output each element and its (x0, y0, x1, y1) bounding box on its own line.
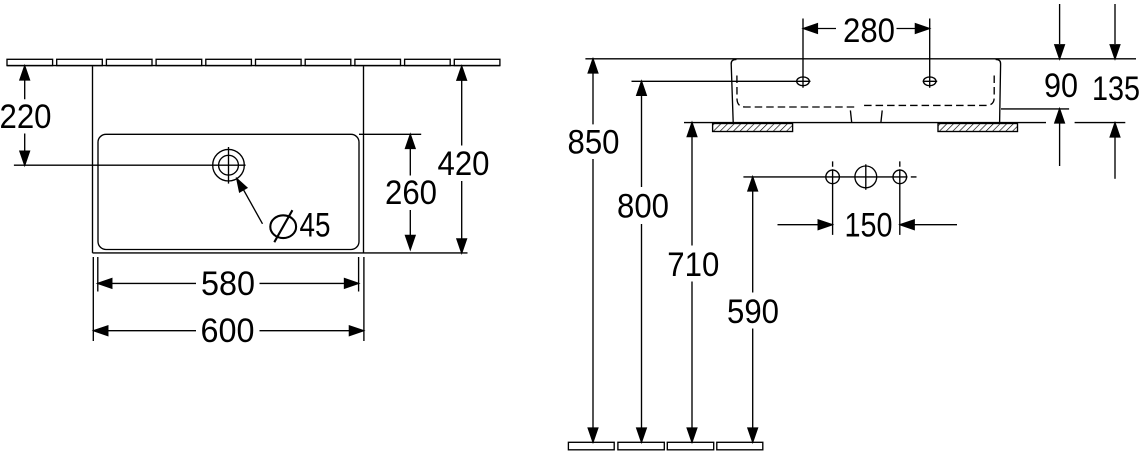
dimension 590 line (752, 178, 754, 442)
dimension 280 left arrow (803, 24, 817, 34)
dimension 800 top arrow (637, 81, 647, 95)
dimension 800 bottom arrow (637, 428, 647, 442)
right mounting bracket (hatched) (938, 124, 1018, 132)
front view: wall/rim top reference line (585, 58, 1136, 60)
tap hole inner circle (219, 155, 239, 175)
dimension 590 bottom arrow (748, 428, 758, 442)
basin outer rectangle (plan view) (93, 66, 364, 253)
dimension 90 lower reference line (1001, 108, 1069, 110)
dimension 90 upper line (1059, 4, 1061, 44)
dimension 135 lower tail (1114, 137, 1116, 179)
dimension 150 left line (778, 224, 820, 226)
basin inner rounded rectangle (plan view) (98, 134, 359, 249)
dimension 135 lower arrow (1110, 123, 1120, 137)
dimension 90 lower arrow (1055, 109, 1065, 123)
dimension 260 line (409, 136, 411, 249)
dimension 580 line (98, 282, 359, 284)
svg-text:800: 800 (617, 188, 669, 226)
front view: basin right edge (996, 59, 1001, 122)
600 extension lines (93, 257, 364, 341)
dimension 850 bottom arrow (588, 428, 598, 442)
svg-text:850: 850 (568, 123, 620, 161)
svg-text:45: 45 (300, 207, 331, 245)
left mounting bracket (hatched) (713, 124, 793, 132)
faucet hole center circle (855, 166, 877, 188)
svg-text:710: 710 (667, 246, 719, 284)
dimension 150 right line (914, 224, 958, 226)
dimension 150 right arrow (900, 220, 914, 230)
leader line for diameter 45 (242, 186, 263, 224)
dimension 260 top arrow (406, 135, 416, 149)
dimension 220 line (24, 67, 26, 165)
dimension 850 line (592, 60, 594, 442)
dimension 135 upper line (1114, 4, 1116, 44)
faucet hole small right circle (893, 170, 907, 184)
580 extension lines (98, 257, 359, 292)
tap hole outer circle (213, 149, 245, 181)
wall line (plan view) (7, 65, 500, 67)
basin bottom edge + extension line (93, 252, 468, 254)
800 reference line (632, 80, 797, 82)
front view: basin bottom line + 710 reference + right extension (684, 122, 1125, 124)
dimension 710 top arrow (687, 123, 697, 137)
dimension 260 bottom arrow (406, 235, 416, 249)
dimension 135 upper arrow (1110, 45, 1120, 59)
dimension 600 left arrow (94, 326, 108, 336)
dimension 580 right arrow (345, 279, 359, 289)
dimension 220 bottom arrow (20, 151, 30, 165)
drain boss left line (850, 110, 851, 122)
dashed bowl contour left (737, 76, 856, 108)
svg-text:590: 590 (727, 293, 779, 331)
dimension 420 line (461, 67, 463, 251)
dimension 600 right arrow (349, 326, 363, 336)
diameter symbol slash (274, 210, 292, 242)
dimension 710 bottom arrow (687, 428, 697, 442)
fixing hole left centerlines + 280 extension (796, 19, 811, 88)
dimension 420 top arrow (457, 66, 467, 80)
dimension 280 right arrow (915, 24, 929, 34)
dimension 420 bottom arrow (457, 239, 467, 253)
svg-text:600: 600 (201, 312, 255, 350)
inner rect top extension line (260 dim) (359, 133, 421, 135)
svg-text:220: 220 (0, 98, 52, 136)
dimension 850 top arrow (588, 59, 598, 73)
svg-text:580: 580 (201, 265, 255, 303)
drain boss right line (881, 110, 882, 122)
svg-text:90: 90 (1044, 67, 1078, 105)
floor tiles (568, 442, 762, 450)
dimension 90 upper arrow (1055, 45, 1065, 59)
fixing hole right (923, 77, 936, 86)
dimension 710 line (691, 123, 693, 441)
diameter symbol circle (270, 215, 296, 238)
svg-text:150: 150 (845, 207, 893, 245)
left circle vertical centerline + 150 extension (832, 161, 834, 235)
svg-text:280: 280 (843, 12, 895, 50)
right circle vertical centerline + 150 extension (899, 161, 901, 235)
dimension 150 left arrow (818, 220, 832, 230)
dimension 600 line (94, 330, 364, 332)
dashed bowl contour right (864, 76, 994, 106)
dimension 800 line (641, 82, 643, 441)
fixing hole left (797, 77, 810, 86)
dimension 580 left arrow (98, 279, 112, 289)
svg-text:420: 420 (438, 145, 490, 183)
tap hole vertical centerline (228, 147, 230, 184)
dimension 280 line (817, 28, 916, 30)
leader arrowhead (237, 179, 247, 192)
dimension 220 top arrow (20, 66, 30, 80)
center circle vertical centerline (865, 164, 867, 190)
svg-text:260: 260 (385, 174, 437, 212)
front view: basin left edge (731, 59, 736, 122)
svg-text:135: 135 (1092, 70, 1140, 108)
dimension 90 lower tail (1059, 123, 1061, 166)
faucet centerline / 590 reference line (743, 176, 916, 178)
faucet hole small left circle (826, 170, 840, 184)
tap hole horizontal centerline / 220 reference line (14, 164, 246, 166)
wall tiles (plan view, top strip) (7, 59, 500, 65)
fixing hole right centerlines + 280 extension (923, 19, 938, 88)
dimension 590 top arrow (748, 177, 758, 191)
